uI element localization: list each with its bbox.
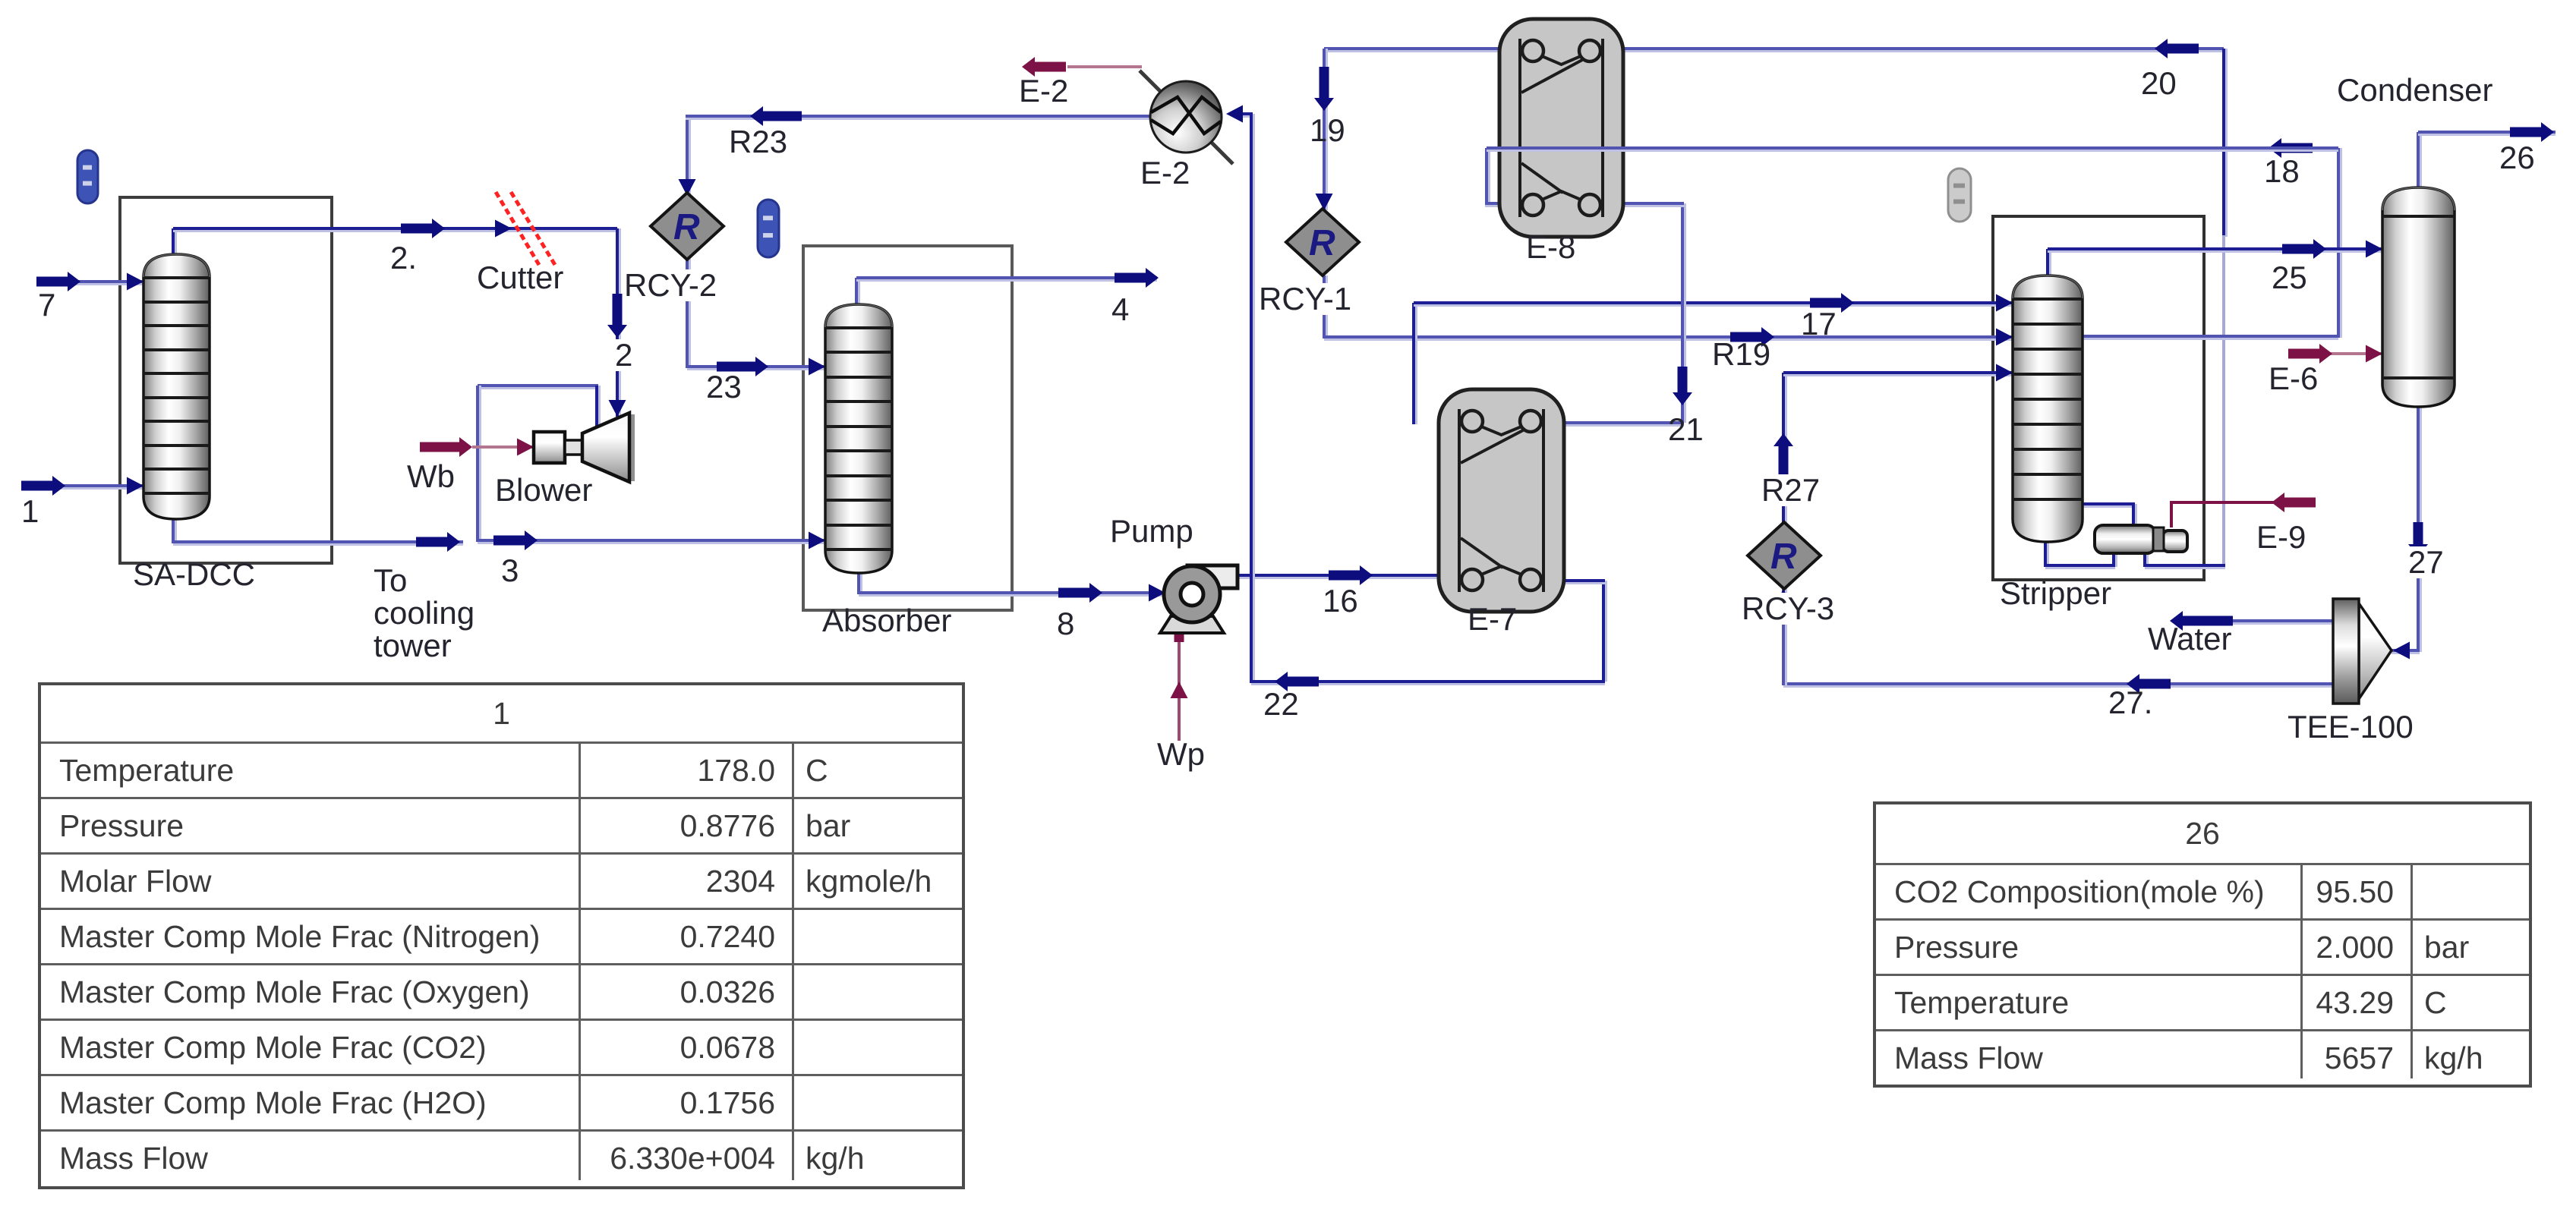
svg-text:R: R — [673, 207, 700, 247]
svg-text:R: R — [1309, 223, 1335, 263]
svg-text:R: R — [1770, 537, 1797, 577]
